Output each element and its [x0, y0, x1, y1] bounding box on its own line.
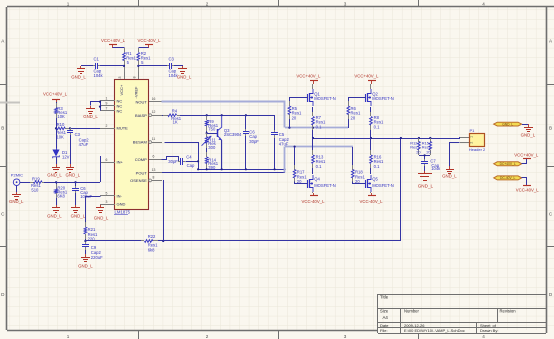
svg-text:-VREF: -VREF: [133, 86, 138, 99]
svg-text:Q5: Q5: [372, 177, 378, 182]
svg-text:8: 8: [153, 175, 155, 179]
svg-text:220uF: 220uF: [91, 255, 103, 260]
svg-text:GND_L: GND_L: [94, 215, 109, 220]
svg-text:VCC+40V_L: VCC+40V_L: [101, 38, 126, 43]
svg-text:6: 6: [106, 158, 108, 162]
svg-text:GND_L: GND_L: [47, 214, 62, 219]
svg-text:GND_L: GND_L: [83, 114, 98, 119]
svg-text:10K: 10K: [56, 135, 64, 140]
svg-text:1: 1: [67, 334, 70, 339]
svg-text:C4: C4: [186, 154, 192, 159]
svg-text:104k: 104k: [94, 73, 104, 78]
svg-text:1K: 1K: [173, 120, 178, 125]
svg-text:File:: File:: [380, 328, 388, 333]
svg-text:Sheet: Sheet: [480, 323, 491, 328]
svg-text:E:\00 ED\WY10\..\AMP_L.SchDoc: E:\00 ED\WY10\..\AMP_L.SchDoc: [404, 328, 465, 333]
svg-text:3: 3: [344, 2, 347, 7]
svg-text:Cap: Cap: [187, 163, 195, 168]
svg-text:8: 8: [132, 76, 136, 78]
svg-text:R19: R19: [32, 177, 40, 182]
svg-text:NC: NC: [117, 108, 123, 113]
svg-text:Date: Date: [380, 323, 389, 328]
svg-text:MOSFET-N: MOSFET-N: [314, 183, 336, 188]
svg-text:0.1: 0.1: [316, 124, 322, 129]
svg-text:1: 1: [67, 2, 70, 7]
svg-text:VCC-40V_L: VCC-40V_L: [516, 188, 540, 193]
svg-text:20: 20: [351, 115, 356, 120]
svg-text:R4: R4: [172, 108, 178, 113]
svg-text:VCC-40V_L: VCC-40V_L: [302, 199, 326, 204]
svg-text:2: 2: [470, 142, 474, 144]
svg-text:C3: C3: [169, 57, 175, 62]
svg-text:4: 4: [482, 2, 485, 7]
svg-text:VCC+40V_L: VCC+40V_L: [296, 73, 321, 78]
svg-text:B: B: [1, 126, 4, 131]
svg-text:20: 20: [355, 179, 360, 184]
svg-text:R22: R22: [148, 234, 156, 239]
svg-text:GND_L: GND_L: [71, 74, 86, 79]
svg-text:30pF: 30pF: [168, 159, 178, 164]
svg-text:GND_L: GND_L: [177, 74, 192, 79]
svg-text:Size: Size: [380, 308, 389, 313]
svg-text:750: 750: [208, 127, 216, 132]
svg-text:6k8: 6k8: [148, 247, 155, 252]
svg-text:DC-40V_L: DC-40V_L: [500, 176, 516, 180]
svg-text:GND_L: GND_L: [521, 133, 536, 138]
svg-text:12: 12: [152, 110, 156, 114]
svg-text:13: 13: [152, 168, 156, 172]
svg-text:Drawn By:: Drawn By:: [480, 328, 498, 333]
svg-text:1: 1: [470, 136, 474, 138]
svg-text:300: 300: [208, 145, 216, 150]
svg-text:2: 2: [206, 334, 209, 339]
svg-text:P1: P1: [470, 128, 476, 133]
svg-text:11: 11: [152, 137, 156, 141]
svg-text:Q4: Q4: [314, 177, 320, 182]
svg-text:Revision: Revision: [500, 308, 517, 313]
svg-text:OSENSE: OSENSE: [130, 178, 147, 183]
svg-text:5: 5: [106, 192, 108, 196]
svg-text:GND_L: GND_L: [66, 172, 81, 177]
svg-text:3: 3: [106, 200, 108, 204]
svg-text:P2MIC: P2MIC: [11, 172, 23, 177]
svg-text:MUTE: MUTE: [117, 126, 129, 131]
svg-text:GND_L: GND_L: [418, 183, 434, 188]
svg-text:1: 1: [106, 97, 108, 101]
svg-text:20: 20: [297, 179, 302, 184]
svg-text:VCC+40V_L: VCC+40V_L: [43, 92, 68, 97]
svg-text:C1: C1: [94, 57, 100, 62]
svg-text:0.1: 0.1: [374, 124, 380, 129]
svg-text:GND_L: GND_L: [9, 199, 24, 204]
svg-text:GND_L: GND_L: [442, 174, 457, 179]
svg-text:16: 16: [152, 97, 156, 101]
svg-text:2: 2: [106, 124, 108, 128]
svg-text:2009-12-26: 2009-12-26: [404, 323, 425, 328]
svg-text:GND: GND: [117, 202, 126, 207]
svg-text:BESAM: BESAM: [133, 140, 147, 145]
svg-text:Number: Number: [404, 308, 419, 313]
svg-text:104k: 104k: [431, 166, 441, 171]
svg-text:6: 6: [153, 155, 155, 159]
svg-text:GND_L: GND_L: [47, 172, 62, 177]
svg-text:30pF: 30pF: [249, 139, 259, 144]
svg-text:2SC3904: 2SC3904: [224, 132, 242, 137]
svg-text:VCC-40V_L: VCC-40V_L: [138, 38, 162, 43]
svg-text:Title: Title: [380, 295, 389, 300]
svg-text:Header 2: Header 2: [469, 147, 486, 152]
svg-text:MOSFET-N: MOSFET-N: [314, 96, 336, 101]
svg-text:MOSFET-N: MOSFET-N: [372, 183, 394, 188]
svg-text:B: B: [549, 126, 552, 131]
svg-text:20: 20: [292, 115, 297, 120]
svg-text:2: 2: [206, 2, 209, 7]
svg-text:IN+: IN+: [117, 160, 124, 165]
svg-text:NOUT: NOUT: [135, 99, 147, 104]
svg-text:10K: 10K: [57, 114, 65, 119]
svg-text:IN-: IN-: [117, 193, 123, 198]
svg-text:GND_L: GND_L: [71, 214, 86, 219]
svg-text:GND_L: GND_L: [502, 122, 513, 126]
svg-text:R10: R10: [57, 122, 65, 127]
svg-text:VCC+40V_L: VCC+40V_L: [514, 152, 539, 157]
svg-text:POUT: POUT: [136, 171, 148, 176]
svg-text:VCC+40V_L: VCC+40V_L: [354, 73, 379, 78]
svg-text:VCC-40V_L: VCC-40V_L: [360, 199, 384, 204]
svg-text:DC+40V_L: DC+40V_L: [500, 162, 516, 166]
svg-text:LM1875: LM1875: [115, 209, 131, 214]
svg-text:3: 3: [344, 334, 347, 339]
svg-text:VCC+: VCC+: [119, 84, 124, 95]
svg-text:15: 15: [118, 76, 122, 80]
svg-text:A4: A4: [383, 315, 389, 320]
svg-text:6K8: 6K8: [57, 194, 65, 199]
svg-text:510: 510: [31, 188, 39, 193]
svg-text:0.1: 0.1: [316, 164, 322, 169]
svg-text:BIASP: BIASP: [135, 113, 147, 118]
svg-text:9: 9: [106, 102, 108, 106]
svg-text:47uF: 47uF: [79, 142, 89, 147]
svg-text:4: 4: [482, 334, 485, 339]
svg-text:12V: 12V: [62, 155, 70, 160]
svg-text:GND_L: GND_L: [78, 264, 93, 269]
svg-text:MOSFET-N: MOSFET-N: [372, 96, 394, 101]
svg-text:7: 7: [106, 107, 108, 111]
svg-text:COMP: COMP: [135, 157, 147, 162]
svg-text:0.1: 0.1: [374, 164, 380, 169]
